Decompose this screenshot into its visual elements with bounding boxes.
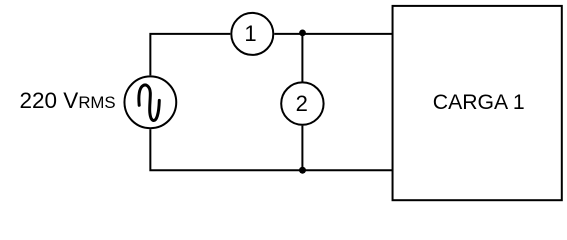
svg-text:1: 1 xyxy=(244,21,256,46)
svg-text:CARGA 1: CARGA 1 xyxy=(433,91,525,114)
svg-text:2: 2 xyxy=(296,91,308,116)
